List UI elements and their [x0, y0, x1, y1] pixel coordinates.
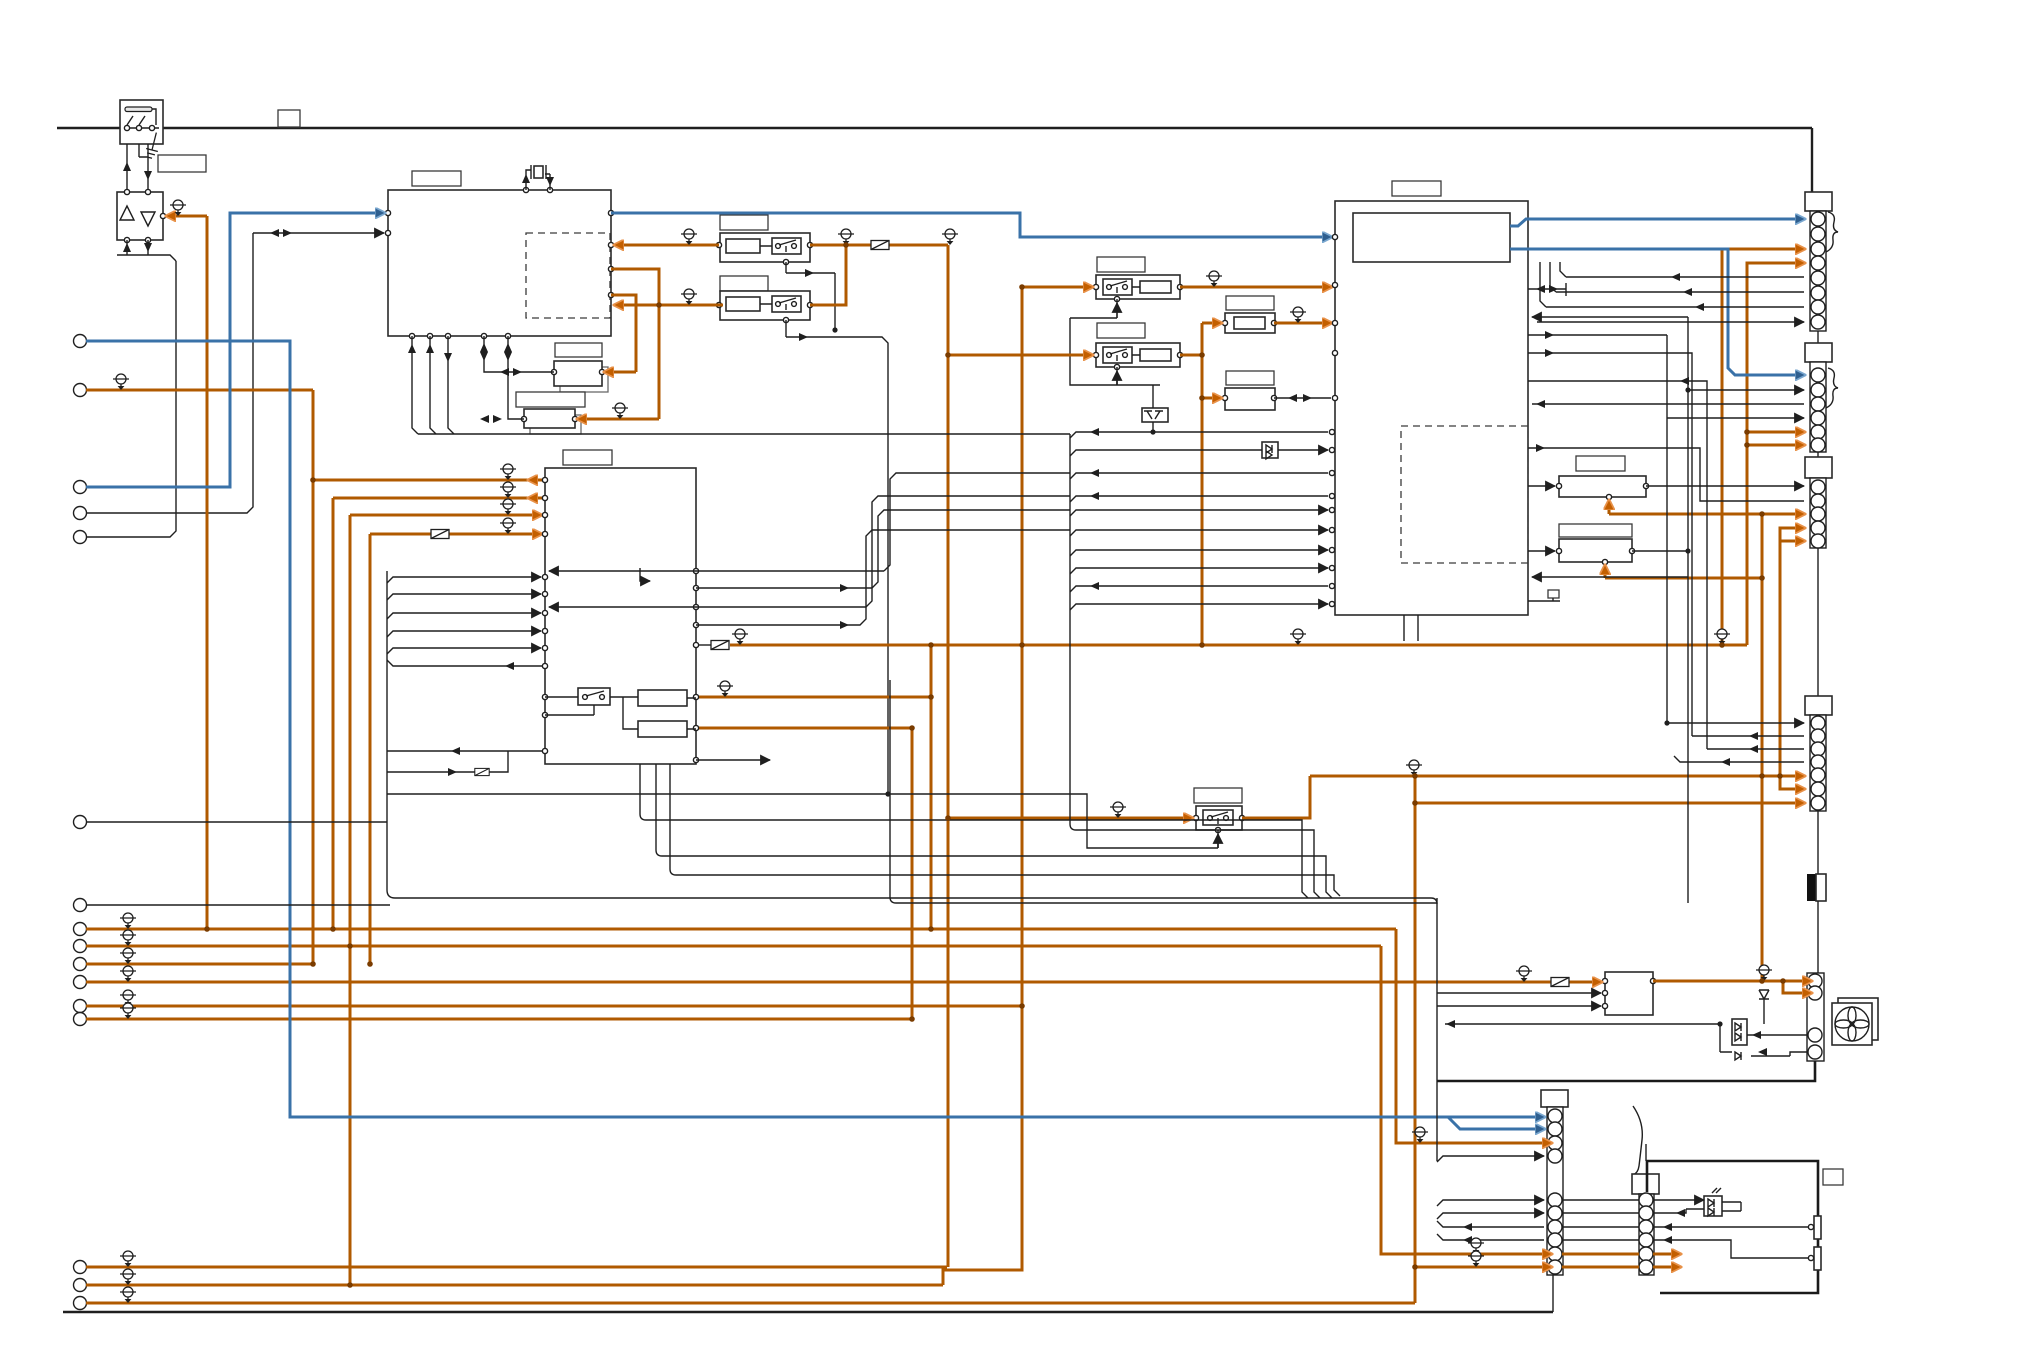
wire J3 pin4 riser x1780	[1780, 528, 1804, 776]
control unit box C	[1335, 201, 1528, 615]
wire box A bottom bundle	[412, 336, 454, 434]
wire M2 pin3 feed	[1437, 1005, 1601, 1007]
wire J4 pin3	[1707, 748, 1804, 750]
wire amp lower pins to bend	[117, 240, 176, 261]
wire box C right pin 381 riser	[1528, 381, 1707, 749]
wire riser x1437	[1436, 898, 1438, 1161]
wire tap J2 pin5	[1747, 431, 1804, 434]
wire relay K4 coil drive	[1116, 371, 1118, 385]
wire box B bottom bundle 3	[670, 764, 1340, 896]
dashed sub-block inside box C	[1401, 426, 1528, 563]
wire box B out 760	[696, 759, 770, 761]
wire terminal row1b	[86, 1266, 947, 1269]
box C fan pin circles	[1329, 234, 1337, 606]
wire relay K1 coil drive	[786, 262, 835, 273]
fuse F4	[871, 241, 889, 250]
wire R12 feed	[1528, 550, 1555, 552]
wire box A pin 508 to G2	[508, 336, 524, 419]
wire relay K5 out	[1242, 776, 1310, 818]
diode pack D8	[1732, 1019, 1747, 1045]
wire blue box A to box C	[611, 213, 1331, 237]
wire bus to box B pin 613	[387, 613, 541, 619]
wire J3 pin3 tap	[1762, 513, 1804, 516]
wire riser x1688	[1687, 317, 1689, 903]
wire box C right pin 448 jog	[1528, 448, 1804, 501]
ground via m2in	[1516, 966, 1532, 982]
wire J6-J7 link 1267	[1562, 1266, 1680, 1269]
wire box B out 588 to box C row 510	[696, 510, 1070, 588]
wire left bus x387	[387, 571, 395, 898]
connector J6 header	[1541, 1090, 1568, 1107]
ground via k1l	[681, 229, 697, 245]
wire relay K3 feed riser x1022	[943, 287, 1022, 1285]
relay K1	[716, 233, 812, 265]
wire J3 down right bus	[1817, 548, 1819, 696]
label box C	[1392, 181, 1441, 196]
wire M4 top feed	[1645, 1144, 1647, 1161]
sensor label	[516, 392, 585, 407]
ground via r2	[120, 930, 136, 946]
wire terminal row5	[86, 1005, 1022, 1008]
wire J1 pin8	[1537, 321, 1804, 323]
wire J1 to J2 link	[1817, 331, 1819, 343]
wire J4 pin4	[1674, 756, 1804, 762]
label tag M4	[1823, 1169, 1843, 1185]
wire box C right pin 577	[1532, 576, 1688, 578]
small connector tag on bus	[278, 110, 300, 127]
brace J1	[1826, 212, 1838, 252]
wire K5 out to J4 pin5	[1310, 775, 1804, 778]
ground via m2out	[1756, 965, 1772, 981]
wire J2 pin2	[1688, 389, 1804, 391]
heater module M2	[1602, 972, 1655, 1015]
fuse F1	[431, 530, 449, 539]
ground via r2b	[120, 1269, 136, 1285]
wire box B pin3 in	[350, 514, 541, 517]
wire coil feed riser	[1070, 318, 1160, 385]
ground via y697	[717, 681, 733, 697]
wire terminal row3b	[86, 1302, 1415, 1305]
wire J6 shell down	[1552, 1275, 1554, 1312]
ground via bB3	[500, 499, 516, 515]
sensor module G2	[521, 409, 581, 434]
wire box A pin295 to G1	[605, 295, 636, 372]
ground via t390	[113, 374, 129, 390]
wire riser x350	[349, 515, 352, 1285]
label relay K5	[1194, 788, 1242, 803]
wire J2 pin4	[1667, 417, 1804, 419]
ground via j6p3	[1412, 1127, 1428, 1143]
connector J2 pin strip	[1810, 362, 1826, 452]
ground via y645a	[732, 629, 748, 645]
wire terminal row2	[86, 945, 1381, 948]
connector J7 pin strip	[1639, 1193, 1654, 1275]
wire box B out stub 645	[696, 644, 712, 646]
wire box C fan rows	[1070, 428, 1328, 610]
wire box A pin269 riser x659	[578, 269, 723, 419]
wire bus to box B pin 577	[387, 577, 541, 583]
ground via r3b	[120, 1287, 136, 1303]
wire terminal row2b	[86, 1284, 943, 1287]
wire M2 pin2 feed	[1437, 992, 1601, 994]
ground via f2r	[1290, 307, 1306, 323]
LED opto D6	[1704, 1188, 1722, 1216]
fan motor M3	[1832, 998, 1878, 1045]
switch SW1 inside box B	[578, 688, 610, 705]
label box B	[563, 450, 612, 465]
relay K4	[1093, 343, 1182, 370]
resistor Rb1 inside box B	[638, 690, 687, 706]
box A pins	[385, 210, 390, 215]
ground via r4	[120, 966, 136, 982]
wire bottom rail	[63, 1311, 1553, 1313]
ground via bB4	[500, 518, 516, 534]
wire plug to amplifier pins	[127, 144, 148, 192]
connector J2 header	[1805, 343, 1832, 362]
ground via y645b	[1714, 629, 1730, 645]
wire relay K5 coil feed	[387, 794, 1218, 848]
wire box B pin1 tap	[313, 479, 545, 482]
connector J4 pin strip	[1810, 715, 1826, 811]
ground via amp	[170, 200, 186, 216]
actuator box M4 bottom right	[1647, 1161, 1818, 1293]
wire D8 to fan connector pin3	[1747, 1034, 1808, 1036]
connector J4 header	[1805, 696, 1832, 715]
wire box B out y697	[696, 696, 931, 699]
diode D9	[1735, 1052, 1741, 1060]
wire box B main out y645	[730, 644, 1747, 647]
wire R11 feed	[1528, 485, 1555, 487]
connector J6 pin strip	[1547, 1107, 1563, 1275]
ground via x846	[838, 229, 854, 245]
resistor R22	[1814, 1247, 1821, 1270]
tiny comp on 601	[1548, 590, 1559, 598]
wire riser x912	[911, 728, 914, 1019]
wire terminal row6	[86, 1018, 912, 1021]
ground via r6	[120, 1003, 136, 1019]
inline comp on 772	[475, 768, 489, 775]
fuse F3	[1551, 978, 1569, 987]
resistor R21	[1814, 1216, 1821, 1239]
wire J1 pin5	[1560, 262, 1804, 277]
wire J1 pin7	[1540, 262, 1804, 307]
label relay K2	[720, 276, 768, 291]
wire riser x1373 to J6 pin3	[1396, 929, 1551, 1143]
wire riser x1202	[1201, 323, 1204, 645]
wire R12 bias feed	[1605, 566, 1762, 578]
wire return y830	[1076, 830, 1320, 898]
wire blue terminal 341 to J6 pin1	[86, 341, 1544, 1117]
ground via k3r	[1206, 271, 1222, 287]
wire black riser x253 terminal 513 to box A pin 233	[86, 233, 253, 513]
wire blue terminal 487 to box A	[86, 213, 384, 487]
ground via j6p10	[1468, 1251, 1484, 1267]
wire amp feed x207	[206, 216, 209, 929]
wire relay K4 feed	[948, 354, 1092, 357]
wire J4 pin1	[1667, 722, 1804, 724]
wire box B out y728	[696, 727, 912, 730]
label relay K1	[720, 215, 768, 230]
wire R11 to J3 pin1	[1646, 485, 1804, 487]
connector J1 header	[1805, 192, 1832, 211]
label box X1	[158, 155, 206, 172]
diode D7	[1759, 990, 1769, 1024]
wire return y898	[395, 898, 1437, 904]
wire J6-J7 link 1254	[1562, 1253, 1680, 1256]
wire box B pin 666 out	[387, 660, 545, 666]
wire relay K1 row	[615, 244, 948, 247]
wire J6-J7 links black	[1562, 1200, 1639, 1240]
wire box B bottom bundle 1	[640, 764, 1308, 898]
wire riser x333	[332, 498, 335, 929]
box B pin circles	[542, 477, 698, 762]
connector J7 header	[1632, 1174, 1659, 1194]
brace J6	[1633, 1106, 1642, 1175]
wire J7 pin4 to R22	[1653, 1240, 1811, 1258]
wire S2 feed	[1202, 397, 1221, 400]
resistor block R11	[1556, 476, 1648, 500]
op-amp buffer pair U9	[117, 192, 163, 240]
wire box B pin2 out	[333, 497, 545, 500]
wire fuse F2 to box C	[1274, 322, 1331, 325]
wire fuse F2 feed	[1202, 322, 1221, 325]
ground via k5l	[1110, 802, 1126, 818]
wire box C right pin 335	[1528, 334, 1667, 336]
crystal Y1 above box A	[523, 187, 528, 192]
ground via r5	[120, 990, 136, 1006]
wire J6 pin10 tap	[1415, 1266, 1551, 1269]
wire J4 pin7 tap	[1415, 802, 1804, 805]
brace J2	[1826, 368, 1838, 408]
ground via r1	[120, 913, 136, 929]
wire box B out 571 from box C row 473	[549, 570, 884, 572]
wire box C right pin 317	[1532, 316, 1688, 318]
oscillator label	[555, 343, 602, 357]
wire R12 out	[1632, 550, 1688, 552]
ground via r3	[120, 948, 136, 964]
wire K2 to box A	[615, 304, 719, 307]
wire box B out 607 from box C row 496	[549, 606, 866, 608]
ground via k5r	[1406, 760, 1422, 776]
wire black riser x176 down to terminal row 537	[86, 261, 176, 537]
wire tap J2 pin6	[1747, 444, 1804, 447]
inline connector black block	[1807, 874, 1826, 901]
hook glyph in box B	[640, 568, 650, 581]
wire bus to box B pin 648	[387, 648, 541, 654]
wire J1 pin6	[1550, 262, 1804, 292]
connector J3 pin strip	[1810, 478, 1826, 548]
wire box C bottom stubs	[1404, 615, 1418, 641]
ground via k2l	[681, 289, 697, 305]
label box A	[412, 171, 461, 186]
label relay K3	[1097, 257, 1145, 272]
connector X1 fuse/plug box top-left	[120, 100, 163, 144]
wire J2 to J3 link	[1817, 452, 1819, 457]
wire J6 pin4	[1437, 1156, 1544, 1162]
wire box B pin 751 out	[387, 750, 545, 752]
wire J4 pin6 tap	[1780, 776, 1804, 789]
wire relay K5 coil drive	[1217, 834, 1219, 848]
ground via g2	[612, 403, 628, 419]
wire J6 pin8	[1437, 1234, 1544, 1240]
wire relay K3 coil drive	[1116, 303, 1118, 318]
wire fan diode row	[1445, 1024, 1732, 1052]
wire main riser x948	[947, 245, 950, 1267]
oscillator module G1	[551, 361, 608, 392]
wire riser x313	[312, 390, 315, 964]
wire relay K4 out	[1180, 354, 1202, 357]
wire relay K3 out to box C	[1180, 286, 1331, 289]
wire terminal row4 to module M2	[86, 981, 1601, 984]
resistor block R12	[1556, 539, 1634, 565]
relay K5	[1193, 806, 1244, 833]
wire module M2 out	[1653, 980, 1811, 983]
wire second return x890	[890, 680, 896, 903]
wire blue branch J6 pin2	[1448, 1117, 1544, 1129]
sensor S2 box	[1222, 388, 1276, 410]
fuse F2	[1222, 313, 1276, 333]
wire bus riser x1070	[1070, 434, 1076, 830]
wire block down to fan connector	[1817, 901, 1819, 973]
zener pair D4	[1142, 385, 1168, 432]
wire return bus y434	[418, 433, 1070, 435]
connector J1 pin strip	[1810, 211, 1826, 331]
wire riser x1747 to J1 pin4	[1747, 263, 1804, 645]
wire box B pin4 in with fuse	[370, 533, 541, 536]
label sensor S2	[1226, 371, 1274, 385]
wire J4 pin2	[1692, 735, 1804, 737]
wire J6 pin6	[1437, 1213, 1544, 1219]
wire fan return thick	[1437, 1061, 1815, 1081]
connector J3 header	[1805, 457, 1832, 478]
wire riser x1722 to J1 pin3	[1722, 249, 1804, 645]
ground via x948	[942, 229, 958, 245]
wire riser x370	[369, 534, 372, 964]
ground via bB1	[500, 464, 516, 480]
label relay K4	[1097, 323, 1145, 338]
wire J7 pin1 to LED	[1653, 1199, 1704, 1201]
relay K2	[716, 291, 812, 323]
wire relay K2 coil drive	[786, 273, 888, 794]
wire box C right pin 601	[1528, 600, 1560, 602]
wire box C right pin 353 riser	[1528, 353, 1692, 736]
ground via y645c	[1290, 629, 1306, 645]
wire return y903	[896, 902, 1437, 904]
wire box C right pin 401 to J2 pin3	[1532, 403, 1804, 405]
wire blue box C to J2 pin1	[1510, 249, 1804, 375]
wire S2 to box C bidirectional	[1274, 397, 1331, 399]
wire bus to box B pin 594	[387, 594, 541, 600]
inline resistor on 645	[711, 641, 729, 650]
wire terminal row1	[86, 928, 1396, 931]
ground chassis below plug	[144, 131, 162, 159]
wire riser x1381 to J6 pin9	[1381, 946, 1551, 1254]
ground via j6p9	[1468, 1238, 1484, 1254]
wire J7 pin3 to R21	[1653, 1226, 1811, 1228]
dashed sub-block inside box A	[526, 233, 610, 318]
wire box B out 625 to box C row 530	[696, 530, 1070, 625]
wire relay K2 return riser x846	[810, 245, 846, 305]
wire relay K5 feed	[948, 817, 1192, 820]
fan connector J5 strip	[1807, 973, 1824, 1061]
wire J4 down	[1817, 811, 1819, 874]
wire supply terminal 390	[86, 389, 313, 392]
wire J6 pin5	[1437, 1200, 1544, 1206]
label resistor R12	[1559, 524, 1632, 537]
wire riser x1415	[1414, 776, 1417, 1303]
wire box B internal	[545, 697, 696, 729]
wire bus lower branch 772	[387, 751, 508, 772]
wire R11 bias riser x1762	[1761, 514, 1764, 981]
wire R11 bias feed	[1609, 501, 1762, 514]
wire amp feed top	[167, 215, 207, 218]
wire bus to box B pin 631	[387, 631, 541, 637]
wire terminal row3	[86, 963, 313, 966]
diode pack D5	[1262, 442, 1278, 459]
wire riser x931	[930, 645, 933, 929]
ground via bB2	[500, 482, 516, 498]
main module box B	[545, 468, 696, 764]
wire right bus drop to connector J1	[1811, 128, 1813, 192]
wire terminal 905	[86, 904, 390, 906]
terminal circles left edge	[74, 335, 87, 1310]
ground via r1b	[120, 1251, 136, 1267]
wire LED out	[1722, 1202, 1741, 1211]
wire box B bottom bundle 2	[656, 764, 1332, 898]
label fuse F2	[1226, 296, 1274, 310]
wire J7 pin2 to LED	[1653, 1209, 1704, 1213]
wire relay K3 feed tap	[1022, 286, 1092, 289]
wire D9 to fan connector pin4	[1751, 1052, 1808, 1056]
wire top supply bus	[57, 127, 1812, 129]
wire blue box C to J1 pin1	[1510, 219, 1804, 226]
relay K3	[1093, 275, 1182, 302]
wire M2 out branch pin2	[1783, 981, 1811, 993]
label resistor R11	[1576, 456, 1625, 471]
wire box C right pin 289	[1528, 283, 1566, 296]
resistor Rb2 inside box B	[638, 721, 687, 737]
ECU box A	[388, 190, 611, 336]
wire J6 pin7	[1437, 1221, 1544, 1227]
wire terminal 822	[86, 821, 387, 823]
wire riser x1667	[1666, 335, 1668, 723]
wire box A pin 484 to G1	[484, 336, 554, 372]
wire J3 pin5 tap	[1780, 540, 1804, 543]
inner block of box C	[1353, 213, 1510, 262]
